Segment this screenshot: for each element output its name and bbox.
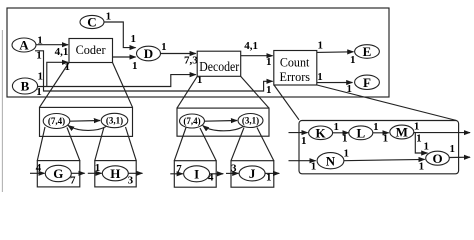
- expansion line (7,4)b to I box left: [174, 128, 186, 161]
- wire (3,1)b back to (7,4)b curved: [203, 126, 244, 131]
- wire into I: [170, 173, 183, 175]
- node E: [355, 45, 380, 59]
- wire A to Coder: [36, 44, 68, 46]
- svg-text:3: 3: [128, 174, 134, 186]
- svg-text:1: 1: [37, 34, 43, 46]
- svg-text:1: 1: [346, 83, 352, 95]
- wire B to Decoder: [38, 75, 196, 87]
- expansion line CountErrors to subgraph3 left: [274, 85, 299, 120]
- wire N to O: [344, 159, 425, 160]
- wire into K: [289, 132, 308, 134]
- svg-text:1: 1: [311, 161, 317, 173]
- expansion line Decoder to subgraph2 left: [177, 76, 197, 108]
- expansion line (3,1)a to H box left: [95, 127, 104, 161]
- wire B up to Coder: [47, 62, 68, 86]
- svg-text:1: 1: [342, 133, 348, 145]
- svg-text:3: 3: [231, 163, 237, 175]
- wire into G: [30, 172, 45, 174]
- expansion line (7,4)b to I box right: [200, 128, 216, 161]
- svg-text:D: D: [144, 46, 153, 61]
- wire L to M: [373, 132, 389, 134]
- J box: [231, 161, 274, 188]
- actor (3,1)a: [101, 113, 128, 127]
- svg-text:C: C: [87, 15, 96, 30]
- svg-text:7,3: 7,3: [184, 55, 198, 67]
- svg-text:1: 1: [416, 132, 422, 144]
- svg-text:K: K: [316, 126, 327, 141]
- wire into J: [226, 172, 238, 174]
- svg-text:N: N: [326, 153, 336, 168]
- wire out of J: [265, 172, 279, 174]
- svg-text:1: 1: [383, 133, 389, 145]
- svg-text:I: I: [194, 167, 199, 182]
- svg-text:1: 1: [266, 84, 272, 96]
- expansion line CountErrors to subgraph3 right: [317, 85, 457, 121]
- node O: [426, 151, 450, 165]
- svg-text:M: M: [396, 125, 408, 140]
- svg-text:1: 1: [449, 143, 455, 155]
- node I: [184, 166, 210, 182]
- actor (7,4)b: [180, 114, 205, 128]
- svg-text:1: 1: [350, 54, 356, 66]
- wire D to Decoder: [161, 53, 196, 55]
- wire out of I: [210, 173, 224, 175]
- svg-text:1: 1: [266, 171, 272, 183]
- wire K to L: [333, 132, 349, 134]
- svg-text:L: L: [356, 126, 365, 141]
- svg-text:1: 1: [38, 71, 44, 83]
- node H: [102, 166, 128, 181]
- svg-text:4,1: 4,1: [244, 40, 258, 52]
- svg-text:1: 1: [419, 161, 425, 173]
- svg-text:7: 7: [176, 163, 182, 175]
- wire Count Errors to F: [317, 82, 352, 84]
- svg-text:Decoder: Decoder: [199, 59, 239, 74]
- svg-text:F: F: [363, 75, 371, 90]
- svg-text:1: 1: [343, 147, 349, 159]
- expansion line (7,4)a to G box left: [37, 127, 45, 161]
- actor Coder: [69, 39, 113, 63]
- svg-text:H: H: [110, 166, 120, 181]
- wire (7,4)a to (3,1)a: [70, 120, 100, 123]
- wire Coder to D: [113, 56, 136, 58]
- wire into N: [289, 160, 316, 162]
- G box: [37, 161, 80, 187]
- actor (3,1)b: [238, 114, 263, 128]
- node A: [12, 38, 36, 52]
- outer top-level graph box: [7, 8, 389, 97]
- svg-text:(3,1): (3,1): [242, 116, 259, 126]
- wire O out of box: [449, 156, 470, 158]
- svg-text:1: 1: [317, 40, 323, 52]
- wire M out of box: [414, 132, 470, 134]
- subgraph2 box (Decoder refinement): [177, 108, 269, 136]
- wire out of G: [71, 172, 84, 174]
- actor (7,4)a: [43, 114, 70, 129]
- svg-text:1: 1: [106, 11, 112, 23]
- svg-text:B: B: [21, 79, 30, 94]
- svg-text:G: G: [53, 166, 63, 181]
- wire (7,4)b to (3,1)b: [205, 120, 238, 123]
- scan edge artifact: [1, 30, 3, 192]
- expansion line (3,1)b to J box left: [231, 128, 244, 161]
- svg-text:Count: Count: [280, 54, 310, 69]
- svg-text:Coder: Coder: [76, 42, 107, 57]
- wire Decoder to Count Errors: [241, 55, 273, 57]
- expansion line (3,1)a to H box right: [126, 127, 137, 161]
- svg-text:1: 1: [424, 141, 430, 153]
- svg-text:(3,1): (3,1): [106, 116, 123, 126]
- svg-text:Errors: Errors: [280, 69, 311, 84]
- svg-text:A: A: [19, 38, 29, 53]
- svg-text:4,1: 4,1: [55, 46, 69, 58]
- node C: [80, 15, 104, 28]
- wire A down to long line to Count Errors: [35, 51, 273, 91]
- svg-text:1: 1: [317, 71, 323, 83]
- node D: [137, 46, 161, 61]
- wire into H: [88, 172, 102, 174]
- svg-text:E: E: [363, 44, 372, 59]
- node G: [45, 165, 71, 181]
- svg-text:1: 1: [161, 41, 167, 53]
- node L: [349, 126, 373, 140]
- svg-text:(7,4): (7,4): [48, 116, 65, 126]
- wire Count Errors to E: [317, 51, 353, 54]
- actor Decoder: [197, 51, 241, 76]
- svg-text:(7,4): (7,4): [183, 116, 200, 126]
- node J: [239, 166, 265, 181]
- expansion line Coder to subgraph1 right: [113, 63, 133, 108]
- svg-text:1: 1: [130, 33, 136, 45]
- actor Count Errors: [274, 51, 317, 86]
- wire out of H: [128, 172, 142, 174]
- node N: [317, 153, 344, 169]
- svg-text:1: 1: [334, 121, 340, 133]
- expansion line Decoder to subgraph2 right: [241, 76, 269, 108]
- node B: [12, 78, 37, 94]
- svg-text:1: 1: [414, 121, 420, 133]
- svg-text:O: O: [432, 151, 442, 166]
- svg-text:4: 4: [36, 162, 42, 174]
- wire M down to O: [415, 133, 427, 153]
- svg-text:1: 1: [95, 162, 101, 174]
- wire C to D: [104, 22, 136, 48]
- svg-text:J: J: [249, 166, 256, 181]
- wire (3,1)a back to (7,4)a curved: [68, 125, 108, 130]
- svg-text:1: 1: [373, 121, 379, 133]
- svg-text:1: 1: [266, 56, 272, 68]
- subgraph1 box (Coder refinement): [40, 107, 133, 136]
- expansion line (3,1)b to J box right: [257, 128, 274, 161]
- H box: [95, 161, 136, 187]
- I box: [174, 161, 216, 188]
- expansion line Coder to subgraph1 left: [40, 63, 70, 108]
- subgraph3 box (Count Errors refinement): [299, 121, 459, 174]
- svg-text:1: 1: [36, 49, 42, 61]
- node K: [309, 126, 333, 140]
- svg-text:1: 1: [132, 60, 138, 72]
- node F: [355, 75, 380, 89]
- svg-text:1: 1: [301, 135, 307, 147]
- expansion line (7,4)a to G box right: [67, 128, 80, 161]
- node M: [390, 125, 414, 139]
